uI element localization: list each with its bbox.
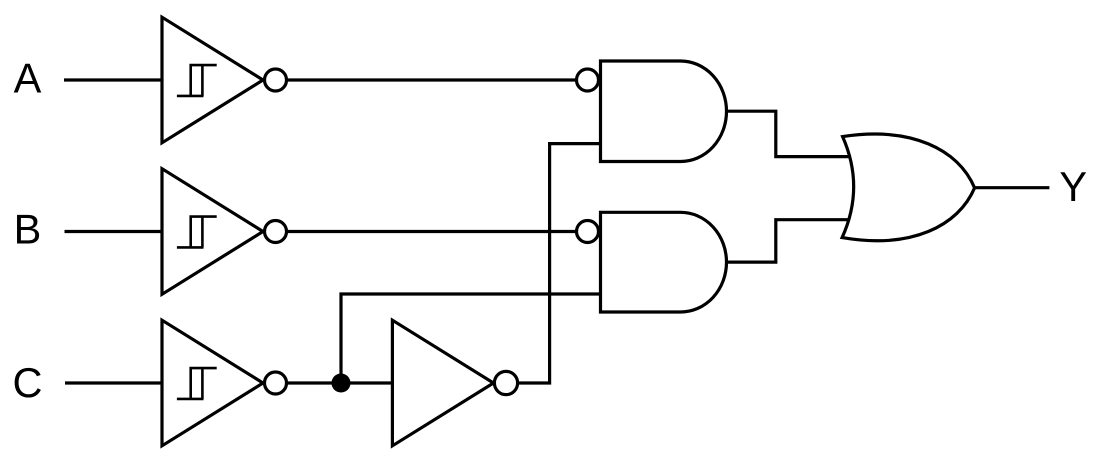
wire notB (B inverter output to AND gate U5 bubble) bbox=[283, 230, 578, 233]
wire U5 output jog to OR gate U6 bottom input bbox=[727, 220, 853, 262]
AND gate U5 (bottom, inverted top input) body bbox=[601, 212, 727, 312]
U1 hysteresis symbol bbox=[177, 65, 217, 96]
AND gate U4 (top, inverted top input) body bbox=[601, 61, 727, 162]
svg-text:A: A bbox=[14, 55, 42, 102]
wire notA (A inverter output to NAND gate U4 bubble) bbox=[283, 78, 578, 81]
U7 output bubble bbox=[494, 371, 517, 394]
junction dot on notC net bbox=[332, 374, 351, 393]
Schmitt-trigger inverter U2 (input B) triangle bbox=[162, 169, 263, 295]
svg-text:C: C bbox=[13, 359, 43, 406]
U3 output bubble bbox=[265, 372, 287, 394]
Schmitt-trigger inverter U1 (input A) triangle bbox=[162, 17, 263, 143]
inverter U7 (buffer stage after U3) triangle bbox=[392, 320, 493, 446]
Schmitt-trigger inverter U3 (input C) triangle bbox=[162, 320, 263, 446]
U2 hysteresis symbol bbox=[177, 217, 217, 248]
wire notC (C inverter output to junction and buffer input) bbox=[283, 381, 394, 384]
svg-text:B: B bbox=[14, 206, 42, 253]
wire C input bbox=[65, 381, 163, 384]
svg-text:Y: Y bbox=[1059, 163, 1087, 210]
U1 output bubble bbox=[265, 69, 287, 91]
wire U4 output jog to OR gate U6 top input bbox=[727, 111, 853, 156]
wire A input bbox=[64, 78, 163, 81]
U3 hysteresis symbol bbox=[177, 368, 217, 399]
wire buffer output (right, riser up, to NAND gate U4 lower input) bbox=[513, 144, 602, 383]
OR gate U6 body bbox=[842, 134, 975, 241]
U2 output bubble bbox=[265, 221, 287, 243]
wire notC branch (junction up then right to AND gate U5 lower input) bbox=[341, 294, 602, 383]
U5 input bubble bbox=[577, 221, 599, 243]
wire Y output bbox=[975, 186, 1050, 189]
U4 input bubble bbox=[577, 69, 599, 91]
wire B input bbox=[65, 230, 164, 233]
